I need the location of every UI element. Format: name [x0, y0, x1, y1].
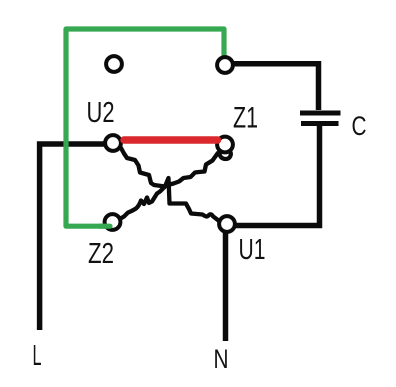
- wire L line: from U2 left to bottom-left: [40, 144, 104, 330]
- wire from top-right terminal to capacitor top: [233, 64, 319, 110]
- svg-text:Z1: Z1: [233, 102, 258, 135]
- svg-text:U2: U2: [87, 97, 115, 129]
- terminal circle top-right: [217, 57, 233, 73]
- svg-text:C: C: [352, 111, 367, 141]
- terminal circle top-left (unused): [106, 56, 122, 72]
- svg-text:Z2: Z2: [88, 238, 114, 270]
- terminal Z1: [217, 137, 233, 153]
- wire N line: from U1 down: [223, 230, 229, 341]
- svg-text:U1: U1: [239, 234, 266, 266]
- terminal U1: [219, 216, 235, 232]
- green wire: from Z2 up the left side, across top, down to top-right terminal: [66, 29, 224, 226]
- green wire tip entering Z2 terminal: [100, 224, 110, 229]
- winding Z1 to Z2 (squiggle with loop): [121, 146, 231, 219]
- svg-text:N: N: [214, 344, 229, 374]
- red link U2-Z1: [124, 136, 218, 144]
- winding U2 to U1 (squiggle): [114, 147, 219, 221]
- capacitor C plates: [300, 111, 341, 116]
- terminal Z2: [105, 214, 121, 230]
- wire from capacitor bottom to U1: [236, 124, 320, 226]
- terminal U2: [105, 135, 121, 151]
- svg-text:L: L: [33, 340, 42, 372]
